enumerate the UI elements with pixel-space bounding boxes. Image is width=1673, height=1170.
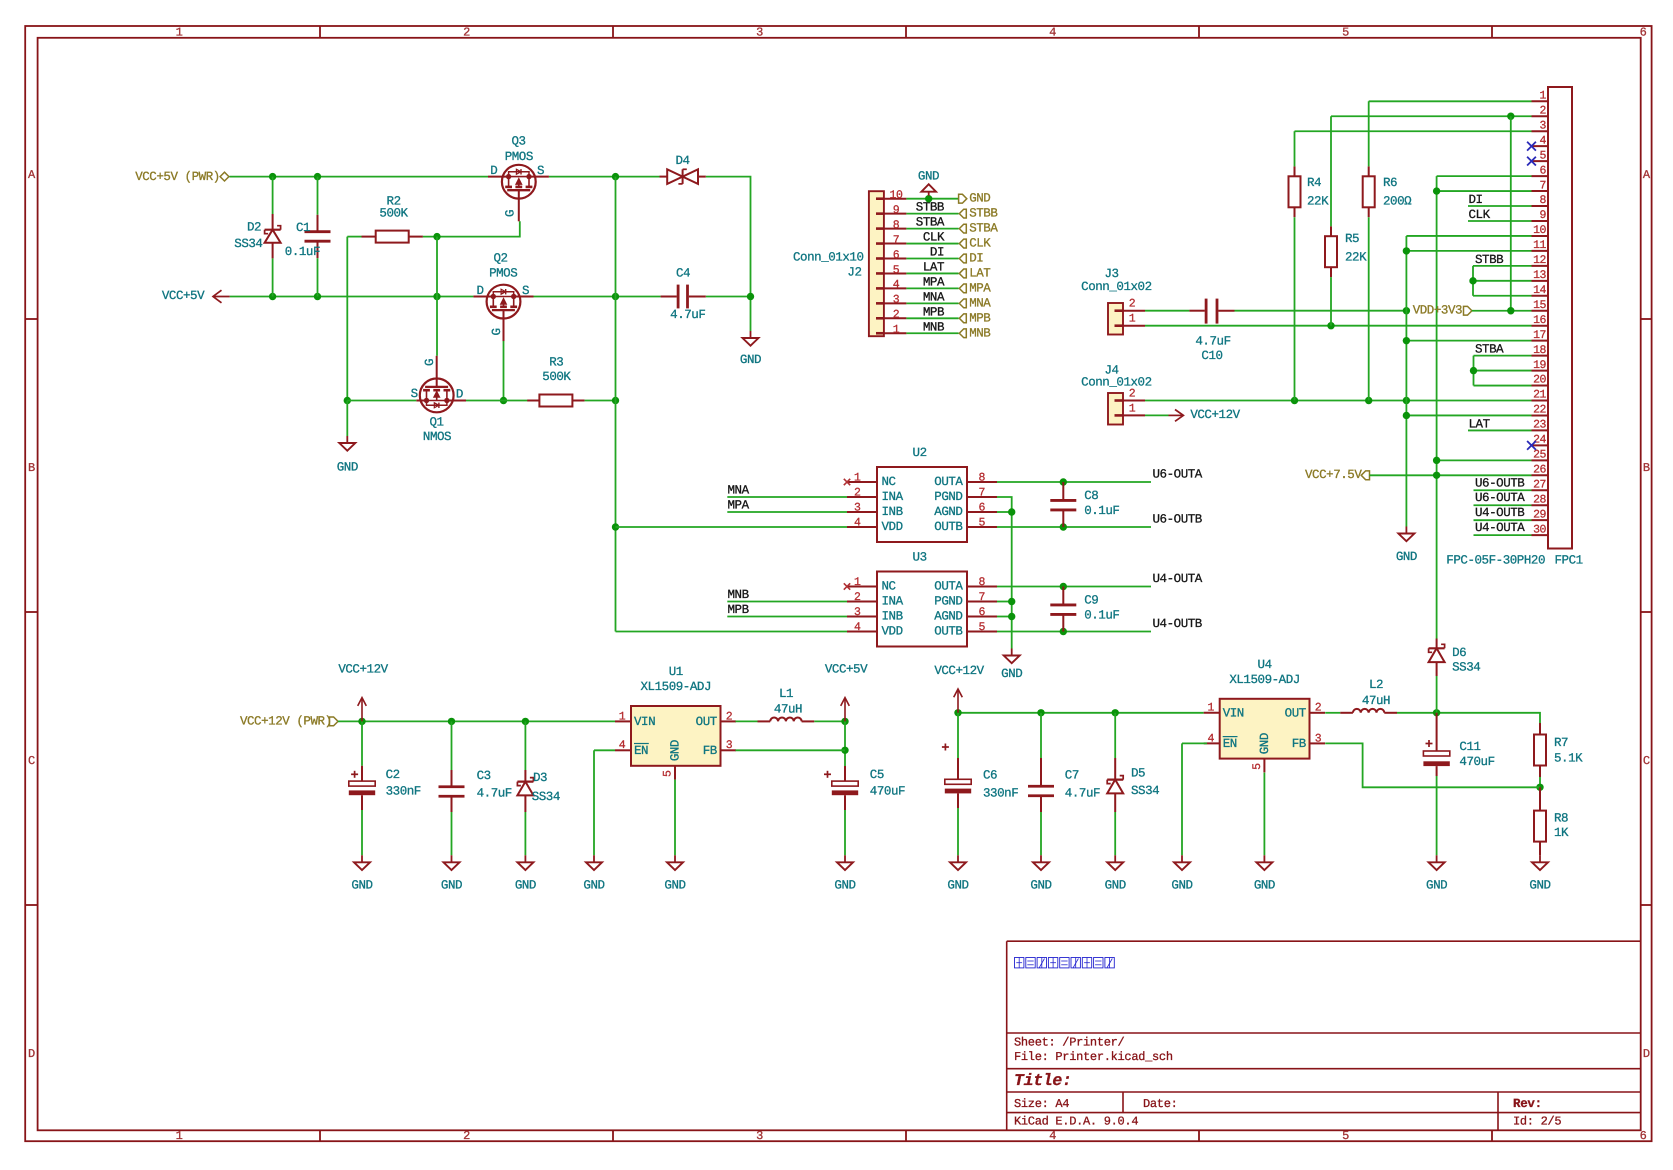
svg-text:S: S bbox=[411, 387, 418, 401]
svg-text:Rev:: Rev: bbox=[1513, 1097, 1542, 1111]
svg-text:5.1K: 5.1K bbox=[1554, 751, 1583, 765]
svg-text:GND: GND bbox=[664, 879, 685, 893]
svg-text:5: 5 bbox=[893, 264, 900, 277]
svg-text:27: 27 bbox=[1533, 478, 1546, 491]
wire bbox=[1294, 217, 1296, 400]
wire bbox=[1325, 743, 1540, 787]
wire bbox=[1040, 812, 1042, 855]
capacitor C5 bbox=[824, 766, 905, 810]
wire bbox=[616, 526, 848, 528]
svg-text:MPA: MPA bbox=[728, 499, 750, 513]
svg-text:3: 3 bbox=[854, 502, 861, 515]
wire bbox=[750, 297, 752, 332]
hierarchical label CLK bbox=[959, 237, 991, 251]
J3 pins bbox=[1123, 311, 1145, 326]
diode D4 bbox=[660, 154, 706, 184]
wire bbox=[906, 243, 958, 245]
svg-text:4: 4 bbox=[1207, 732, 1214, 745]
wire bbox=[524, 721, 526, 770]
svg-text:KiCad E.D.A. 9.0.4: KiCad E.D.A. 9.0.4 bbox=[1014, 1115, 1138, 1129]
svg-text:7: 7 bbox=[979, 591, 985, 604]
svg-text:Conn_01x02: Conn_01x02 bbox=[1081, 376, 1152, 390]
junction bbox=[1433, 457, 1440, 464]
ground bbox=[441, 855, 462, 892]
junction bbox=[522, 718, 529, 725]
wire bbox=[1474, 355, 1532, 357]
svg-text:3: 3 bbox=[893, 294, 900, 307]
svg-text:1: 1 bbox=[619, 710, 626, 723]
svg-text:D: D bbox=[28, 1047, 35, 1061]
svg-text:PGND: PGND bbox=[934, 595, 962, 609]
wire bbox=[1406, 250, 1531, 252]
IC U4 bbox=[1220, 658, 1310, 759]
svg-text:GND: GND bbox=[583, 879, 604, 893]
U2 pin numbers bbox=[854, 472, 985, 530]
wire bbox=[906, 228, 958, 230]
svg-text:U4-OUTB: U4-OUTB bbox=[1475, 506, 1525, 520]
svg-text:R6: R6 bbox=[1383, 176, 1397, 190]
junction bbox=[1469, 277, 1476, 284]
svg-text:500K: 500K bbox=[542, 370, 571, 384]
wire bbox=[1406, 340, 1531, 342]
wire bbox=[1263, 773, 1265, 856]
svg-text:470uF: 470uF bbox=[870, 785, 905, 799]
junction bbox=[612, 293, 619, 300]
svg-text:3: 3 bbox=[1540, 119, 1547, 132]
junction bbox=[1433, 709, 1440, 716]
hierarchical label MNB bbox=[959, 326, 991, 340]
svg-text:FB: FB bbox=[703, 744, 718, 758]
svg-text:LAT: LAT bbox=[1469, 417, 1491, 431]
svg-text:330nF: 330nF bbox=[983, 787, 1018, 801]
hierarchical label VCC+12V (PWR) bbox=[240, 715, 338, 729]
power VCC+12V bbox=[934, 664, 984, 713]
ground bbox=[1030, 855, 1051, 892]
junction bbox=[1507, 307, 1514, 314]
svg-text:FPC-05F-30PH20: FPC-05F-30PH20 bbox=[1446, 554, 1545, 568]
svg-text:VIN: VIN bbox=[1223, 706, 1244, 720]
svg-text:Conn_01x10: Conn_01x10 bbox=[793, 251, 864, 265]
junction bbox=[747, 293, 754, 300]
wire bbox=[451, 721, 453, 770]
wire bbox=[230, 176, 489, 178]
wire bbox=[997, 511, 1012, 513]
svg-text:PMOS: PMOS bbox=[505, 150, 533, 164]
diode D3 bbox=[517, 770, 560, 812]
wire bbox=[1145, 400, 1532, 402]
resistor R8 bbox=[1534, 787, 1569, 855]
svg-text:GND: GND bbox=[918, 169, 939, 183]
svg-text:C7: C7 bbox=[1065, 769, 1079, 783]
svg-text:D3: D3 bbox=[533, 771, 547, 785]
svg-text:13: 13 bbox=[1533, 269, 1546, 282]
svg-text:VIN: VIN bbox=[634, 715, 655, 729]
J2 pins bbox=[876, 199, 906, 334]
FPC1 pin numbers bbox=[1533, 90, 1546, 537]
ground bbox=[664, 855, 685, 892]
diode D6 bbox=[1429, 639, 1481, 677]
svg-text:29: 29 bbox=[1533, 508, 1546, 521]
diode D5 bbox=[1107, 758, 1159, 812]
J2 pin numbers bbox=[890, 189, 903, 337]
junction bbox=[1403, 247, 1410, 254]
svg-text:GND: GND bbox=[1258, 733, 1272, 754]
svg-text:VCC+5V (PWR): VCC+5V (PWR) bbox=[135, 170, 220, 184]
svg-text:8: 8 bbox=[893, 219, 900, 232]
svg-text:8: 8 bbox=[979, 576, 986, 589]
junction bbox=[1470, 367, 1477, 374]
svg-text:Date:: Date: bbox=[1143, 1097, 1178, 1111]
svg-text:C: C bbox=[1643, 754, 1650, 768]
svg-text:AGND: AGND bbox=[934, 505, 962, 519]
svg-text:FB: FB bbox=[1292, 737, 1307, 751]
svg-text:R3: R3 bbox=[549, 356, 563, 370]
svg-text:CLK: CLK bbox=[923, 231, 945, 245]
svg-text:4: 4 bbox=[893, 279, 900, 292]
svg-text:EN: EN bbox=[634, 744, 648, 758]
hierarchical label MPB bbox=[959, 311, 991, 325]
wire bbox=[1473, 265, 1532, 267]
junction bbox=[1060, 523, 1067, 530]
wire bbox=[1436, 176, 1438, 638]
svg-text:4: 4 bbox=[619, 739, 626, 752]
junction bbox=[841, 718, 848, 725]
wire bbox=[593, 750, 595, 855]
svg-text:OUTA: OUTA bbox=[934, 475, 963, 489]
J4 pins bbox=[1123, 401, 1145, 416]
junction bbox=[612, 173, 619, 180]
junction bbox=[1365, 397, 1372, 404]
svg-text:U4-OUTA: U4-OUTA bbox=[1153, 572, 1203, 586]
svg-text:S: S bbox=[522, 284, 529, 298]
svg-text:DI: DI bbox=[930, 246, 944, 260]
wire bbox=[1368, 101, 1370, 166]
hierarchical label GND bbox=[959, 192, 991, 206]
wire bbox=[997, 481, 1151, 483]
svg-text:VCC+12V: VCC+12V bbox=[338, 663, 388, 677]
svg-text:C1: C1 bbox=[296, 221, 310, 235]
ground bbox=[834, 855, 855, 892]
wire bbox=[346, 237, 348, 401]
resistor R3 bbox=[527, 356, 584, 407]
wire bbox=[466, 400, 539, 402]
svg-text:C2: C2 bbox=[386, 768, 400, 782]
svg-text:3: 3 bbox=[1315, 732, 1322, 745]
svg-text:GND: GND bbox=[1529, 879, 1550, 893]
svg-text:U3: U3 bbox=[913, 551, 927, 565]
wire bbox=[997, 631, 1151, 633]
wire bbox=[906, 302, 958, 304]
no-connect pin 24 bbox=[1527, 441, 1536, 450]
connector FPC1 bbox=[1446, 87, 1582, 568]
wire bbox=[1182, 742, 1207, 744]
junction bbox=[1008, 508, 1015, 515]
svg-text:OUT: OUT bbox=[1285, 706, 1307, 720]
svg-text:OUTA: OUTA bbox=[934, 580, 963, 594]
svg-text:STBA: STBA bbox=[916, 216, 945, 230]
wire bbox=[534, 296, 661, 298]
wire bbox=[727, 511, 847, 513]
wire bbox=[1114, 713, 1116, 758]
wire bbox=[1474, 534, 1532, 536]
wire bbox=[1437, 459, 1532, 461]
junction bbox=[1060, 478, 1067, 485]
svg-text:6: 6 bbox=[893, 249, 900, 262]
svg-text:4: 4 bbox=[854, 517, 861, 530]
svg-text:STBB: STBB bbox=[916, 201, 945, 215]
wire bbox=[1474, 489, 1532, 491]
svg-text:INA: INA bbox=[882, 595, 904, 609]
svg-text:470uF: 470uF bbox=[1459, 755, 1494, 769]
svg-text:U6-OUTA: U6-OUTA bbox=[1475, 491, 1525, 505]
svg-text:MPB: MPB bbox=[728, 603, 750, 617]
ground bbox=[515, 855, 536, 892]
wire bbox=[997, 497, 1012, 649]
svg-text:GND: GND bbox=[351, 879, 372, 893]
svg-text:NMOS: NMOS bbox=[423, 430, 451, 444]
wire bbox=[423, 221, 520, 236]
svg-text:GND: GND bbox=[1426, 879, 1447, 893]
svg-text:VDD: VDD bbox=[882, 625, 903, 639]
ground bbox=[1171, 855, 1192, 892]
svg-text:File: Printer.kicad_sch: File: Printer.kicad_sch bbox=[1014, 1050, 1173, 1064]
svg-text:1: 1 bbox=[854, 576, 861, 589]
wire bbox=[727, 616, 847, 618]
svg-text:L2: L2 bbox=[1369, 678, 1383, 692]
wire bbox=[957, 808, 959, 855]
connector J2 bbox=[793, 191, 884, 336]
junction bbox=[612, 397, 619, 404]
junction bbox=[344, 397, 351, 404]
svg-text:GND: GND bbox=[1254, 879, 1275, 893]
svg-text:5: 5 bbox=[1540, 149, 1547, 162]
svg-text:LAT: LAT bbox=[969, 266, 991, 280]
svg-text:Conn_01x02: Conn_01x02 bbox=[1081, 280, 1152, 294]
junction bbox=[314, 173, 321, 180]
svg-text:12: 12 bbox=[1533, 254, 1546, 267]
wire bbox=[1181, 743, 1183, 855]
U4 pins bbox=[1204, 713, 1325, 773]
svg-text:5: 5 bbox=[979, 621, 986, 634]
wire bbox=[906, 198, 958, 200]
svg-text:VCC+12V: VCC+12V bbox=[1190, 408, 1240, 422]
junction bbox=[1403, 337, 1410, 344]
svg-text:2: 2 bbox=[893, 309, 900, 322]
wire bbox=[272, 258, 274, 296]
svg-text:2: 2 bbox=[726, 710, 733, 723]
svg-text:22: 22 bbox=[1533, 404, 1546, 417]
svg-text:3: 3 bbox=[756, 25, 763, 39]
wire bbox=[1397, 713, 1540, 723]
inductor L2 bbox=[1340, 678, 1397, 713]
U1 pins bbox=[615, 721, 736, 779]
wire bbox=[1473, 295, 1532, 297]
svg-text:C4: C4 bbox=[676, 267, 690, 281]
svg-text:SS34: SS34 bbox=[1131, 784, 1159, 798]
svg-text:Q2: Q2 bbox=[493, 252, 507, 266]
svg-text:U2: U2 bbox=[913, 446, 927, 460]
svg-text:NC: NC bbox=[882, 475, 896, 489]
wire bbox=[1040, 713, 1042, 758]
wire bbox=[1473, 356, 1475, 386]
wire bbox=[906, 332, 958, 334]
wire bbox=[727, 496, 847, 498]
svg-text:MNA: MNA bbox=[969, 296, 991, 310]
svg-text:6: 6 bbox=[979, 502, 986, 515]
ground bbox=[337, 436, 358, 474]
svg-text:GND: GND bbox=[441, 879, 462, 893]
resistor R7 bbox=[1534, 723, 1583, 777]
svg-text:GND: GND bbox=[1105, 879, 1126, 893]
capacitor C11 bbox=[1423, 713, 1494, 776]
hierarchical label STBA bbox=[959, 222, 998, 236]
ground bbox=[947, 855, 968, 892]
wire bbox=[1468, 429, 1532, 431]
hierarchical label STBB bbox=[959, 207, 998, 221]
wire bbox=[361, 810, 363, 855]
wire bbox=[272, 177, 274, 214]
wire bbox=[1235, 310, 1407, 312]
svg-text:R8: R8 bbox=[1554, 811, 1568, 825]
svg-text:1: 1 bbox=[1129, 402, 1136, 415]
svg-text:MNB: MNB bbox=[728, 588, 750, 602]
wire bbox=[317, 258, 319, 296]
wire bbox=[958, 712, 1204, 714]
svg-text:18: 18 bbox=[1533, 344, 1546, 357]
svg-text:24: 24 bbox=[1533, 434, 1546, 447]
junction bbox=[314, 293, 321, 300]
power VCC+5V bbox=[825, 663, 868, 722]
wire bbox=[594, 749, 615, 751]
svg-text:PGND: PGND bbox=[934, 490, 962, 504]
wire bbox=[1325, 712, 1340, 714]
svg-text:GND: GND bbox=[1171, 879, 1192, 893]
wire bbox=[1369, 100, 1532, 102]
junction bbox=[1507, 113, 1514, 120]
svg-text:2: 2 bbox=[463, 1129, 470, 1143]
svg-text:MPA: MPA bbox=[923, 275, 945, 289]
svg-text:OUTB: OUTB bbox=[934, 625, 963, 639]
junction bbox=[433, 293, 440, 300]
svg-text:U6-OUTB: U6-OUTB bbox=[1475, 476, 1525, 490]
wire bbox=[957, 713, 959, 758]
junction bbox=[1403, 412, 1410, 419]
svg-text:GND: GND bbox=[947, 879, 968, 893]
svg-text:U6-OUTB: U6-OUTB bbox=[1153, 513, 1203, 527]
ground bbox=[1396, 527, 1417, 565]
wire bbox=[906, 317, 958, 319]
wire bbox=[338, 720, 615, 722]
svg-text:5: 5 bbox=[662, 770, 675, 777]
svg-text:330nF: 330nF bbox=[386, 785, 421, 799]
svg-text:2: 2 bbox=[1315, 702, 1322, 715]
wire bbox=[1295, 130, 1532, 132]
power GND (inverted) bbox=[918, 169, 939, 195]
svg-text:OUTB: OUTB bbox=[934, 520, 963, 534]
wire bbox=[1468, 205, 1532, 207]
wire bbox=[1539, 777, 1541, 787]
svg-text:C6: C6 bbox=[983, 769, 997, 783]
wire bbox=[706, 296, 751, 298]
wire bbox=[906, 258, 958, 260]
svg-text:7: 7 bbox=[979, 487, 985, 500]
hierarchical label MNA bbox=[959, 296, 991, 310]
wire bbox=[1406, 414, 1531, 416]
svg-text:28: 28 bbox=[1533, 493, 1546, 506]
wire bbox=[1145, 325, 1532, 327]
wire bbox=[674, 780, 676, 856]
svg-text:C11: C11 bbox=[1459, 740, 1480, 754]
junction bbox=[1327, 322, 1334, 329]
ground bbox=[740, 331, 761, 367]
svg-text:J2: J2 bbox=[847, 265, 861, 279]
capacitor C7 bbox=[1028, 758, 1100, 812]
resistor R6 bbox=[1363, 166, 1412, 217]
svg-text:2: 2 bbox=[1129, 388, 1136, 401]
capacitor C3 bbox=[439, 769, 512, 812]
global label VCC+12V bbox=[1169, 408, 1241, 422]
ground bbox=[351, 855, 372, 892]
wire bbox=[1468, 220, 1532, 222]
svg-text:10: 10 bbox=[890, 189, 903, 202]
transistor Q3 bbox=[488, 135, 549, 222]
wire bbox=[230, 296, 474, 298]
junction bbox=[358, 718, 365, 725]
hierarchical label VDD+3V3 bbox=[1413, 304, 1472, 318]
svg-text:14: 14 bbox=[1533, 284, 1546, 297]
junction bbox=[1008, 613, 1015, 620]
svg-text:26: 26 bbox=[1533, 464, 1546, 477]
wire bbox=[844, 721, 846, 766]
wire bbox=[1368, 217, 1370, 400]
connector J4 bbox=[1081, 363, 1152, 424]
svg-text:6: 6 bbox=[1640, 1129, 1647, 1143]
svg-text:Q1: Q1 bbox=[429, 415, 443, 429]
svg-text:2: 2 bbox=[854, 591, 861, 604]
svg-text:GND: GND bbox=[740, 353, 761, 367]
svg-text:4.7uF: 4.7uF bbox=[1195, 335, 1230, 349]
power VCC+12V bbox=[338, 663, 388, 722]
svg-text:CLK: CLK bbox=[1469, 208, 1491, 222]
svg-text:MNA: MNA bbox=[923, 290, 945, 304]
J3 pin numbers bbox=[1129, 298, 1136, 326]
svg-text:STBB: STBB bbox=[1475, 253, 1504, 267]
hierarchical label DI bbox=[959, 252, 983, 266]
svg-text:B: B bbox=[28, 461, 35, 475]
junction bbox=[841, 747, 848, 754]
svg-text:17: 17 bbox=[1533, 329, 1546, 342]
junction bbox=[448, 718, 455, 725]
svg-text:1: 1 bbox=[893, 324, 900, 337]
wire bbox=[347, 400, 416, 402]
ground bbox=[583, 855, 604, 892]
svg-text:SS34: SS34 bbox=[532, 790, 560, 804]
wire bbox=[906, 287, 958, 289]
svg-text:GND: GND bbox=[969, 192, 990, 206]
svg-text:47uH: 47uH bbox=[1362, 694, 1390, 708]
wire bbox=[1145, 414, 1169, 416]
capacitor C1 bbox=[285, 215, 331, 259]
svg-text:R4: R4 bbox=[1307, 176, 1321, 190]
wire bbox=[736, 720, 758, 722]
hierarchical label MPA bbox=[959, 281, 991, 295]
svg-text:D: D bbox=[490, 164, 497, 178]
global label VCC+5V bbox=[162, 289, 230, 303]
svg-text:C: C bbox=[28, 754, 35, 768]
wire bbox=[727, 601, 847, 603]
svg-text:3: 3 bbox=[726, 739, 733, 752]
hierarchical label LAT bbox=[959, 266, 991, 280]
